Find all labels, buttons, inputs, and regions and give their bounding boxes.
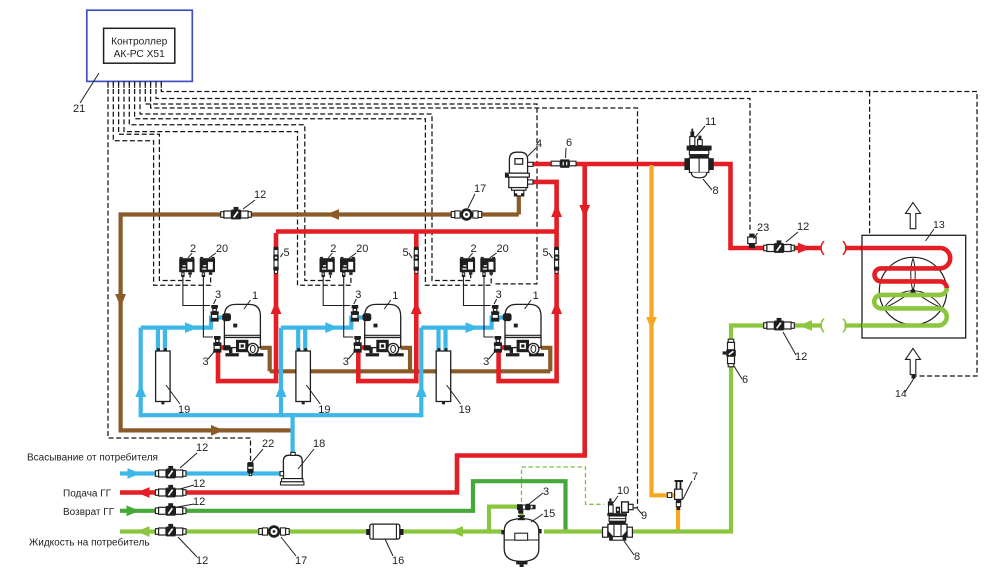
wire: hot gas supply branch down (red): [120, 164, 585, 493]
wire: discharge stub at compressor 2 (red): [360, 345, 368, 350]
svg-text:5: 5: [403, 247, 409, 259]
arrow: discharge flow up group 3: [551, 301, 562, 314]
pressure switch 2 group 1: [179, 258, 194, 272]
compressor group 2 terminal box: [374, 324, 378, 328]
sight glass 17 on oil line: [451, 212, 455, 218]
svg-text:20: 20: [216, 243, 228, 255]
arrow: hot gas flow down: [579, 205, 590, 218]
wire: controller to pressure transmitter 23 (dashed): [156, 81, 750, 232]
arrow: liquid flow left mid: [450, 526, 463, 537]
air flow arrow above condenser: [906, 203, 921, 229]
wire: oil distribution header segment 3 (brown): [451, 369, 551, 373]
svg-text:8: 8: [634, 551, 640, 563]
arrow: suction flow right into compressor 1: [185, 322, 198, 333]
compressor group 3 feet: [510, 348, 513, 354]
svg-text:17: 17: [474, 183, 486, 195]
liquid receiver 15: [504, 519, 539, 562]
pressure transmitter 23: [749, 234, 754, 237]
wire: hot gas main from separator through valves 6 and 8 (red): [532, 164, 822, 248]
svg-text:11: 11: [705, 116, 716, 128]
shut-off valve 12 on condenser supply: [764, 245, 767, 251]
wire: controller auxiliary line to group3 (dashed): [145, 81, 537, 284]
arrow: discharge flow up to separator: [551, 204, 562, 217]
svg-text:18: 18: [313, 438, 325, 450]
wire: oil feed to compressor group 1 (brown): [260, 348, 269, 372]
shut-off valve 12 on condenser return: [764, 323, 767, 329]
wire: oil distribution header segment 1 (brown): [270, 369, 296, 373]
wire: controller output to oil-level solenoid 22 (dashed): [108, 81, 251, 461]
compressor group 2 discharge port: [364, 345, 371, 350]
compressor group 1 flywheel: [247, 343, 258, 354]
compressor group 2 motor block: [376, 340, 388, 352]
condenser coil cold side (green serpentine): [862, 288, 947, 325]
wire: accumulator 19 top stubs group 2 (blue): [296, 328, 300, 351]
svg-text:1: 1: [533, 290, 539, 302]
wire: accumulator 19 top stubs group 3 (blue): [436, 328, 440, 351]
wire: suction branch to compressor 3 (blue): [421, 318, 505, 328]
svg-text:9: 9: [641, 510, 647, 522]
pressure switch 20 group 2: [340, 258, 355, 272]
discharge service valve 3 group 3: [495, 336, 502, 339]
wire: suction branch to compressor 2 (blue): [281, 318, 365, 328]
pressure switch 2 group 3: [460, 258, 475, 272]
svg-text:22: 22: [262, 438, 274, 450]
arrow: suction flow right into compressor 2: [325, 322, 338, 333]
capillary line switch 2 to suction valve group 3: [464, 277, 491, 306]
pressure switch 2 group 2: [320, 258, 335, 272]
wire: oil line from separator 4 down to oil main (brown): [517, 195, 521, 215]
compressor group 2 suction port: [363, 314, 371, 321]
condenser fan circle: [879, 257, 946, 324]
wire: suction branch to compressor 1 (blue): [141, 318, 225, 328]
svg-text:2: 2: [471, 243, 477, 255]
wire: controller to pressure switch 20 group2 (dashed): [124, 81, 351, 285]
arrow: bypass flow down (yellow): [646, 317, 657, 330]
svg-text:19: 19: [318, 404, 330, 416]
air flow arrow below condenser 14: [906, 348, 921, 374]
compressor group 2 feet: [369, 348, 372, 354]
svg-text:7: 7: [692, 471, 698, 483]
compressor 1 group 1 body: [224, 304, 260, 337]
wire: suction from consumer line (blue): [120, 471, 280, 475]
svg-text:5: 5: [543, 247, 549, 259]
wire: condenser supply after break (red): [845, 246, 864, 251]
wire: accumulator 19 top stubs group 1 (blue): [156, 328, 160, 351]
svg-text:1: 1: [252, 290, 258, 302]
svg-text:Контроллер: Контроллер: [111, 37, 168, 48]
wire: discharge stub at compressor 3 (red): [501, 345, 509, 350]
pipe break marks on condenser supply (red): [821, 241, 824, 255]
shut-off valve 12 on hot gas supply: [155, 490, 158, 496]
wire: controller to pressure switch 2 group2 (dashed): [129, 81, 330, 280]
wire: oil feed to compressor group 3 (brown): [541, 348, 550, 372]
wire: discharge stub at compressor 1 (red): [220, 345, 228, 350]
wire: receiver 15 bypass branch with valve 3 (light green): [489, 507, 518, 532]
wire: controller to pressure switch 20 group3 (dashed): [135, 81, 492, 285]
arrow: discharge flow up group 2: [411, 301, 422, 314]
capillary line switch 2 to suction valve group 2: [323, 277, 350, 306]
wire: suction riser from oil reservoir 18 to suction main (blue): [291, 413, 295, 456]
compressor group 3 suction port: [503, 314, 511, 321]
shut-off valve 12 on oil line: [221, 212, 224, 218]
oil reservoir 18: [283, 455, 302, 478]
svg-text:3: 3: [543, 486, 549, 498]
wire: branch to condenser fan motor (dashed): [870, 92, 909, 287]
oil separator 4: [509, 152, 527, 173]
service valve 5 group 3: [554, 247, 559, 250]
svg-text:12: 12: [196, 442, 208, 454]
arrow: hot gas return flow right: [127, 505, 140, 516]
wire: discharge main header (red): [276, 229, 557, 234]
svg-text:6: 6: [742, 374, 748, 386]
svg-text:3: 3: [483, 356, 489, 368]
svg-text:Жидкость на потребитель: Жидкость на потребитель: [29, 537, 150, 549]
svg-text:14: 14: [895, 388, 907, 400]
svg-text:13: 13: [933, 219, 945, 231]
svg-text:3: 3: [343, 356, 349, 368]
controller inner box: [104, 28, 175, 63]
sight glass 17 on liquid line: [259, 529, 263, 535]
capillary line switch 20 to discharge valve group 3: [484, 277, 494, 337]
svg-text:Подача ГГ: Подача ГГ: [63, 489, 112, 500]
compressor group 3 motor block: [517, 340, 529, 352]
compressor group 2 flywheel: [388, 343, 399, 354]
pipe break marks on liquid return (green): [821, 319, 824, 333]
compressor group 1 terminal box: [233, 324, 237, 328]
pressure switch 20 group 3: [480, 258, 495, 272]
wire: liquid line to receiver (light green): [544, 326, 822, 532]
controller box 21 outer: [87, 10, 193, 81]
wire: suction main header (blue): [141, 413, 422, 417]
pressure switch 20 group 1: [200, 258, 215, 272]
compressor 1 group 3 body: [505, 304, 541, 337]
svg-text:АК-РС Х51: АК-РС Х51: [114, 49, 165, 60]
compressor group 3 flywheel: [528, 343, 539, 354]
arrow: suction flow up group 2: [276, 384, 287, 397]
discharge service valve 3 group 2: [354, 336, 361, 339]
arrow: suction flow right into compressor 3: [466, 322, 479, 333]
arrow: oil flow left on oil main: [326, 209, 339, 220]
svg-text:20: 20: [356, 243, 368, 255]
svg-text:2: 2: [330, 243, 336, 255]
svg-text:10: 10: [617, 485, 629, 497]
wire: discharge loop from compressor 2 (red): [358, 233, 416, 381]
compressor group 3 discharge port: [504, 345, 511, 350]
suction accumulator 19 group 2: [296, 351, 311, 402]
svg-text:23: 23: [757, 222, 769, 234]
capillary line switch 20 to discharge valve group 2: [344, 277, 354, 337]
wire: liquid main to consumer (light green): [120, 529, 502, 533]
condenser fan blades: [885, 259, 942, 308]
shut-off valve 6 on liquid drop line: [728, 339, 734, 342]
solenoid coil 9: [622, 502, 629, 512]
condenser box 13: [862, 235, 966, 338]
svg-text:8: 8: [713, 185, 719, 197]
compressor group 3 terminal box: [514, 324, 518, 328]
svg-text:12: 12: [797, 221, 809, 233]
shut-off valve 12 on hot gas return: [155, 508, 158, 514]
svg-text:6: 6: [566, 137, 572, 149]
pilot valve 10 on valve 8: [609, 505, 614, 513]
wire: discharge loop from compressor 3 (red): [499, 233, 557, 381]
suction service valve 3 group 3: [492, 305, 499, 308]
svg-text:20: 20: [496, 243, 508, 255]
svg-text:19: 19: [459, 404, 471, 416]
wire: controller to pressure switch 2 group1 (dashed): [119, 81, 191, 280]
main pressure regulator valve 8: [684, 158, 689, 170]
arrow: hot gas supply to consumer (left): [137, 487, 150, 498]
svg-text:Возврат ГГ: Возврат ГГ: [63, 507, 115, 518]
shut-off valve 6 on discharge main: [551, 161, 560, 166]
compressor group 1 suction port: [223, 314, 231, 321]
compressor 1 group 2 body: [365, 304, 401, 337]
main liquid regulator valve 8: [607, 513, 627, 516]
wire: discharge main rise to oil separator 4 (red): [532, 182, 557, 233]
suction service valve 3 group 2: [352, 305, 359, 308]
arrow: flow right to condenser: [798, 243, 811, 254]
svg-text:2: 2: [190, 243, 196, 255]
shut-off valve 12 on suction line: [155, 471, 158, 477]
arrow: liquid to consumer (left): [137, 526, 150, 537]
wire: suction riser group 2 (blue): [279, 328, 283, 418]
wire: discharge loop from compressor 1 (red): [218, 233, 276, 381]
svg-text:15: 15: [543, 508, 555, 520]
svg-text:3: 3: [203, 356, 209, 368]
svg-text:12: 12: [196, 555, 208, 567]
service valve 3 on receiver 15: [517, 504, 522, 510]
wire: oil distribution header segment 2 (brown): [310, 369, 436, 373]
svg-text:16: 16: [392, 555, 404, 567]
svg-text:5: 5: [284, 247, 290, 259]
wire: suction riser group 1 (blue): [139, 328, 143, 418]
wire: pilot line from valve 3 on receiver 15 to pilot valve 10 (green dashed): [522, 467, 605, 504]
compressor group 1 discharge port: [223, 345, 230, 350]
oil level regulator 22: [247, 462, 253, 473]
suction accumulator 19 group 3: [436, 351, 451, 402]
svg-text:12: 12: [193, 496, 205, 508]
capillary line switch 2 to suction valve group 1: [183, 277, 210, 306]
svg-text:17: 17: [295, 555, 307, 567]
wire: oil feed to compressor group 2 (brown): [401, 348, 410, 372]
svg-text:21: 21: [73, 103, 85, 115]
wire: oil return main (brown): [121, 215, 519, 431]
suction service valve 3 group 1: [211, 305, 218, 308]
suction accumulator 19 group 1: [156, 351, 171, 402]
arrow: suction flow right: [128, 468, 141, 479]
arrow: oil flow right to oil reservoir 18: [211, 425, 224, 436]
shut-off valve 12 on liquid line: [155, 529, 158, 535]
wire: controller to pressure switch 20 group1 (dashed): [113, 81, 210, 285]
svg-text:12: 12: [795, 351, 807, 363]
controller pin stubs: [107, 81, 109, 88]
svg-text:Всасывание от потребителя: Всасывание от потребителя: [27, 452, 158, 464]
discharge service valve 3 group 1: [214, 336, 221, 339]
arrow: suction flow up group 3: [416, 384, 427, 397]
service valve 5 group 2: [414, 247, 419, 250]
condenser coil hot side (red serpentine): [862, 248, 950, 288]
compressor group 1 motor block: [236, 340, 248, 352]
svg-text:1: 1: [392, 290, 398, 302]
wire: liquid line from condenser down (light green): [845, 323, 865, 327]
capillary line switch 20 to discharge valve group 1: [203, 277, 213, 337]
charging valve 7 on bypass line: [675, 480, 683, 482]
arrow: suction flow up group 1: [135, 384, 146, 397]
svg-text:12: 12: [193, 478, 205, 490]
wire: controller to solenoid coil 9 (dashed): [151, 81, 638, 508]
wire: hot gas bypass line (yellow): [652, 165, 679, 532]
filter drier 16: [366, 529, 370, 535]
pilot valve 11 on valve 8: [690, 137, 695, 146]
svg-text:4: 4: [536, 138, 542, 150]
compressor group 1 feet: [229, 348, 232, 354]
arrow: liquid flow left after condenser: [799, 320, 812, 331]
arrow: oil flow down on left oil drop: [115, 294, 126, 307]
svg-text:19: 19: [178, 404, 190, 416]
wire: suction riser group 3 (blue): [419, 328, 423, 418]
svg-text:12: 12: [254, 189, 266, 201]
wire: controller to pressure switch 2 group3 (dashed): [140, 81, 471, 280]
service valve 5 group 1: [274, 247, 279, 250]
wire: controller to condenser section (dashed): [161, 81, 977, 376]
arrow: discharge flow up group 1: [271, 301, 282, 314]
wire: hot gas return line (dark green): [120, 481, 566, 531]
